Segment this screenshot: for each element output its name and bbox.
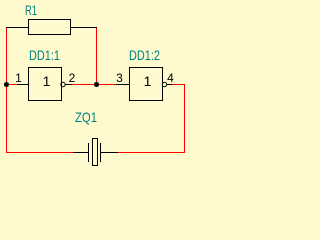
node junction dot left bbox=[4, 82, 9, 87]
svg-text:1: 1 bbox=[15, 71, 22, 85]
resistor R1 body bbox=[29, 20, 71, 35]
wire black DD1:1 output pin 2 lead bbox=[65, 84, 72, 86]
crystal ZQ1 body rect bbox=[93, 139, 98, 166]
wire top-left black (R1 left lead) bbox=[6, 27, 29, 29]
svg-text:1: 1 bbox=[43, 73, 51, 89]
svg-text:ZQ1: ZQ1 bbox=[75, 109, 97, 125]
wire black DD1:1 input pin 1 lead bbox=[18, 84, 29, 86]
svg-text:2: 2 bbox=[69, 71, 76, 85]
wire black DD1:2 output pin 4 lead bbox=[167, 84, 172, 86]
svg-text:1: 1 bbox=[144, 73, 152, 89]
node junction dot middle bbox=[94, 82, 99, 87]
inversion bubble DD1:1 output bbox=[61, 82, 65, 86]
wire red right-top vertical (R1 to node) bbox=[96, 28, 98, 85]
wire red right vertical bbox=[184, 84, 186, 153]
wire top-right black (R1 right lead) bbox=[71, 27, 98, 29]
inverter gate DD1:2 body bbox=[130, 68, 163, 101]
wire black DD1:2 input pin 3 lead bbox=[116, 84, 130, 86]
svg-text:DD1:1: DD1:1 bbox=[29, 47, 60, 63]
wire red DD1:1 input segment bbox=[6, 84, 18, 86]
crystal ZQ1 right plate bbox=[100, 143, 102, 162]
inverter gate DD1:1 body bbox=[29, 68, 62, 101]
svg-text:DD1:2: DD1:2 bbox=[129, 47, 160, 63]
svg-text:4: 4 bbox=[167, 71, 174, 85]
svg-text:R1: R1 bbox=[25, 2, 37, 18]
wire red DD1:2 output to right bbox=[172, 84, 185, 86]
wire black crystal right lead bbox=[101, 152, 119, 154]
wire red bottom right bbox=[118, 152, 185, 154]
wire red node between gates bbox=[72, 84, 116, 86]
svg-text:3: 3 bbox=[116, 71, 123, 85]
crystal ZQ1 left plate bbox=[88, 143, 90, 162]
wire red left vertical bbox=[6, 28, 8, 153]
wire red bottom left bbox=[6, 152, 73, 154]
inversion bubble DD1:2 output bbox=[162, 82, 166, 86]
wire black crystal left lead bbox=[73, 152, 89, 154]
